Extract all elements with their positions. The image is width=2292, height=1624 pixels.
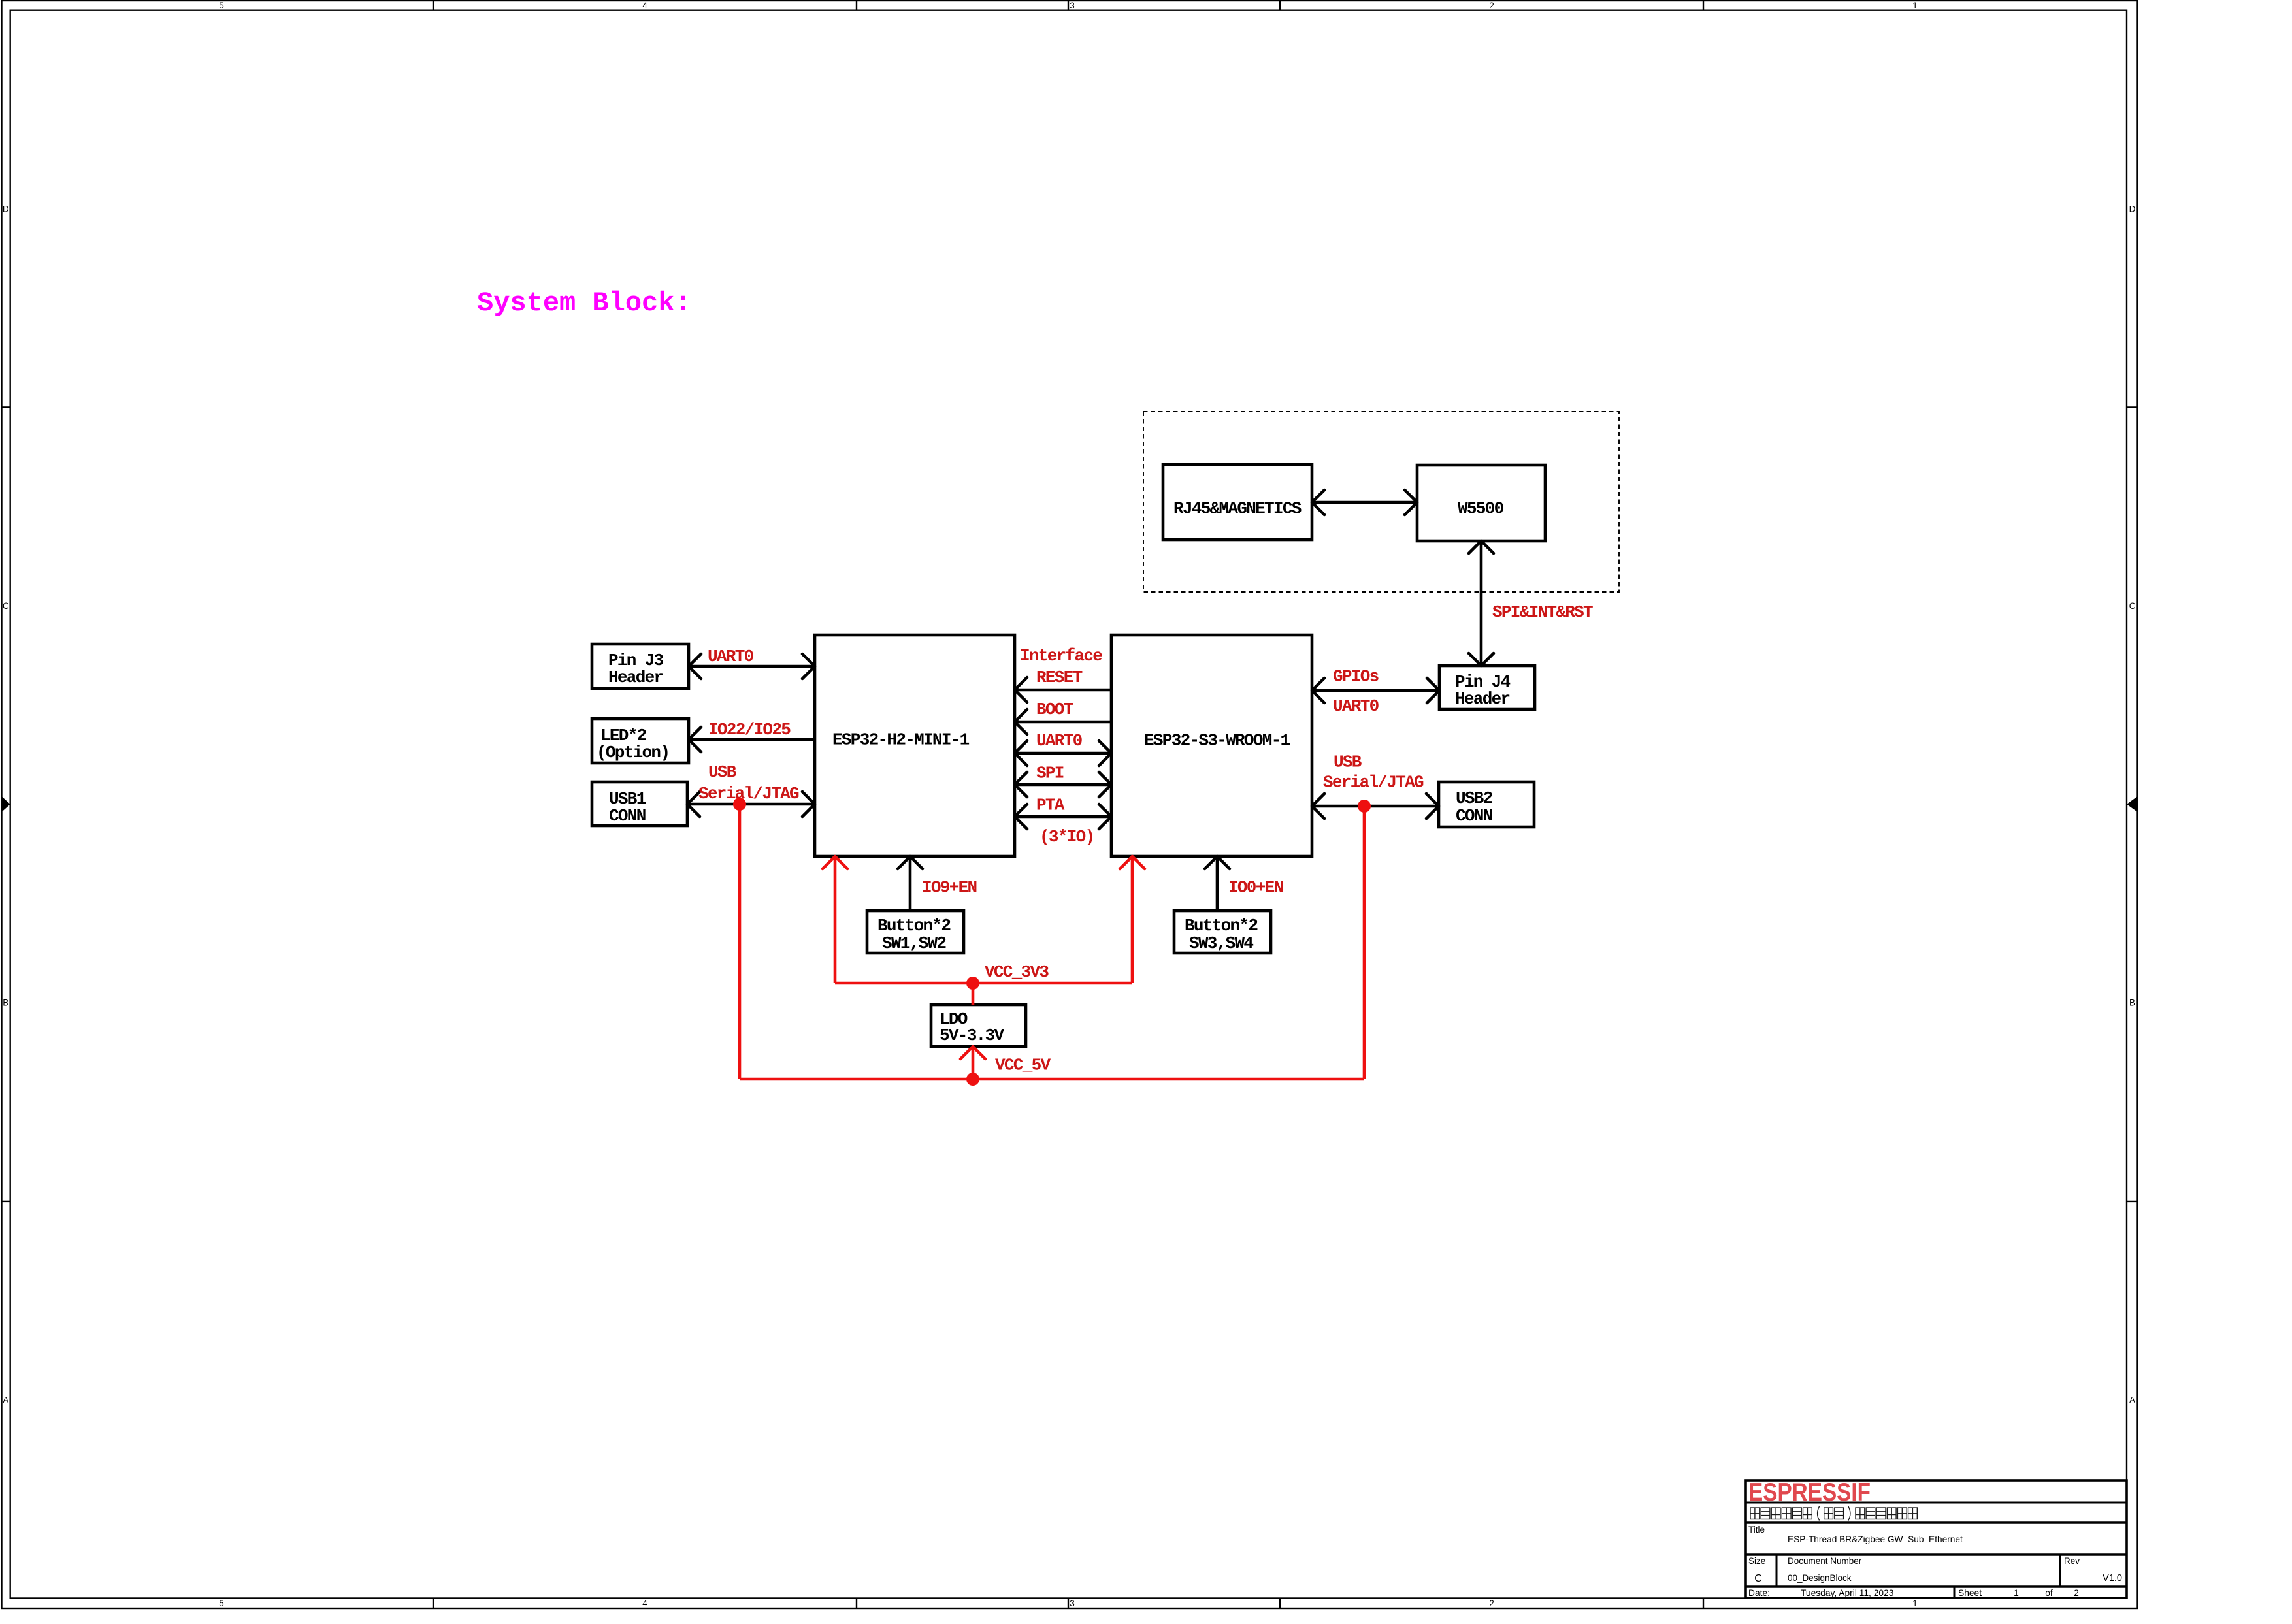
svg-text:Header: Header [1455,689,1510,709]
zone tick bottom [1068,1599,1069,1609]
wire BOOT S3 to H2 [1015,721,1111,724]
svg-text:Date:: Date: [1748,1588,1770,1598]
svg-text:4: 4 [642,1,647,10]
block Button*2 SW1,SW2 [867,911,964,953]
svg-text:PTA: PTA [1036,796,1065,815]
svg-text:IO22/IO25: IO22/IO25 [708,720,791,739]
svg-text:5V-3.3V: 5V-3.3V [940,1026,1004,1045]
wire VCC_5V drop from USB2 line [1363,806,1366,1079]
junction USB1 Serial/JTAG tap [733,798,746,811]
svg-text:ESP32-H2-MINI-1: ESP32-H2-MINI-1 [832,730,970,750]
svg-text:Size: Size [1748,1556,1765,1566]
zone tick top [1068,1,1069,10]
svg-text:VCC_3V3: VCC_3V3 [985,962,1049,982]
zone tick top [856,1,857,10]
svg-text:A: A [3,1395,8,1405]
block LDO 5V-3.3V [931,1005,1026,1047]
svg-text:Sheet: Sheet [1958,1588,1982,1598]
wire UART0 J3 to H2 [689,665,815,668]
svg-text:CONN: CONN [1456,806,1492,826]
svg-text:W5500: W5500 [1458,499,1504,519]
zone tick left [2,1201,10,1202]
wire USB Serial/JTAG S3 to USB2 [1312,805,1439,808]
svg-text:SPI&INT&RST: SPI&INT&RST [1492,602,1593,622]
wire SPI H2-S3 [1015,783,1111,787]
wire VCC_3V3 horizontal [835,982,1132,985]
svg-text:3: 3 [1070,1,1075,10]
block ESP32-H2-MINI-1 U1 [815,635,1015,856]
title block outline [1746,1480,2127,1598]
svg-text:BOOT: BOOT [1036,700,1073,719]
svg-text:Document Number: Document Number [1788,1556,1862,1566]
zone tick right [2127,1201,2138,1202]
svg-text:UART0: UART0 [708,647,754,666]
svg-text:D: D [2129,204,2136,214]
svg-text:3: 3 [1070,1599,1075,1608]
company name (Chinese) [1750,1506,1917,1521]
block RJ45&MAGNETICS [1163,464,1312,540]
svg-text:Interface: Interface [1020,646,1102,666]
wire GPIOs/UART0 S3 to J4 [1312,689,1439,692]
zone tick bottom [433,1599,434,1609]
svg-text:USB: USB [708,762,737,782]
svg-text:5: 5 [219,1599,224,1608]
svg-text:ESP32-S3-WROOM-1: ESP32-S3-WROOM-1 [1144,731,1290,751]
block W5500 [1417,465,1545,541]
svg-text:USB2: USB2 [1456,788,1493,808]
block ESP32-S3-WROOM-1 U2 [1111,635,1312,856]
svg-text:(3*IO): (3*IO) [1040,827,1094,847]
junction VCC_3V3 [966,977,979,990]
svg-text:(Option): (Option) [597,743,669,762]
title block row line 2 [1746,1521,2127,1524]
wire W5500 to Pin J4 (SPI&INT&RST) [1480,541,1483,666]
junction VCC_5V [966,1073,979,1086]
svg-text:1: 1 [1912,1599,1918,1608]
svg-text:UART0: UART0 [1333,696,1379,716]
zone tick top [433,1,434,10]
svg-text:UART0: UART0 [1036,731,1083,751]
wire VCC_3V3 riser into H2 [834,856,837,983]
wire VCC_5V drop from USB1 line [738,804,742,1079]
wire IO0+EN buttons to S3 [1216,856,1219,911]
svg-text:C: C [3,601,9,611]
zone tick top [1703,1,1704,10]
svg-text:Button*2: Button*2 [877,916,951,935]
svg-text:IO9+EN: IO9+EN [922,878,977,898]
block USB2 CONN [1439,782,1534,827]
svg-text:2: 2 [1489,1599,1494,1608]
title block divider Sheet [1954,1587,1956,1598]
wire VCC_3V3 stub to LDO [972,983,975,1005]
block Button*2 SW3,SW4 [1174,911,1271,953]
svg-text:Tuesday, April 11, 2023: Tuesday, April 11, 2023 [1801,1588,1894,1598]
wire USB Serial/JTAG USB1 to H2 [687,803,815,806]
wire RESET S3 to H2 [1015,689,1111,692]
svg-text:D: D [3,204,9,214]
svg-text:Rev: Rev [2064,1556,2080,1566]
svg-text:A: A [2129,1395,2135,1405]
block LED*2 (Option) [592,719,689,763]
svg-text:5: 5 [219,1,224,10]
svg-text:CONN: CONN [609,806,646,826]
block Pin J3 Header [592,644,689,689]
svg-text:SW3,SW4: SW3,SW4 [1189,934,1253,953]
wire IO22/IO25 H2 to LED [689,738,815,741]
svg-text:00_DesignBlock: 00_DesignBlock [1788,1573,1852,1583]
zone tick bottom [1279,1599,1281,1609]
svg-text:B: B [3,998,8,1008]
svg-text:of: of [2045,1588,2053,1598]
svg-text:4: 4 [642,1599,647,1608]
svg-text:C: C [1754,1573,1762,1584]
svg-text:ESPRESSIF: ESPRESSIF [1748,1478,1871,1506]
svg-text:VCC_5V: VCC_5V [995,1056,1051,1075]
svg-text:Button*2: Button*2 [1185,916,1258,935]
svg-text:SPI: SPI [1036,764,1064,783]
zone tick right [2127,406,2138,408]
svg-text:Serial/JTAG: Serial/JTAG [1323,773,1424,792]
block Pin J4 Header [1439,666,1535,709]
title block divider Rev [2059,1555,2061,1587]
svg-text:2: 2 [1489,1,1494,10]
svg-text:Serial/JTAG: Serial/JTAG [698,784,799,804]
svg-text:Title: Title [1748,1525,1765,1535]
zone tick bottom [856,1599,857,1609]
svg-text:RJ45&MAGNETICS: RJ45&MAGNETICS [1173,499,1302,519]
title block divider Size [1776,1555,1778,1587]
svg-text:2: 2 [2074,1588,2079,1598]
svg-text:B: B [2129,998,2135,1008]
dashed group box (ethernet section) [1143,412,1619,592]
svg-text:RESET: RESET [1036,668,1083,687]
centre arrow right edge [2127,796,2138,812]
svg-text:IO0+EN: IO0+EN [1228,878,1283,898]
wire PTA H2-S3 [1015,815,1111,819]
svg-text:V1.0: V1.0 [2103,1573,2122,1583]
svg-text:GPIOs: GPIOs [1333,667,1379,687]
wire VCC_5V stub into LDO [972,1047,975,1079]
wire VCC_3V3 riser into S3 [1131,856,1134,983]
svg-text:Header: Header [608,668,663,687]
svg-text:USB: USB [1334,753,1362,772]
zone tick top [1279,1,1281,10]
wire UART0 H2-S3 [1015,752,1111,755]
wire IO9+EN buttons to H2 [909,856,912,911]
junction USB2 Serial/JTAG tap [1358,800,1371,813]
zone tick left [2,406,10,408]
centre arrow left edge [2,796,10,812]
zone tick bottom [1703,1599,1704,1609]
wire RJ45 to W5500 [1312,501,1417,504]
svg-text:1: 1 [2014,1588,2019,1598]
svg-text:ESP-Thread BR&Zigbee GW_Sub_Et: ESP-Thread BR&Zigbee GW_Sub_Ethernet [1788,1535,1963,1544]
svg-text:1: 1 [1912,1,1918,10]
svg-text:SW1,SW2: SW1,SW2 [882,934,946,953]
svg-text:C: C [2129,601,2136,611]
svg-text:System Block:: System Block: [477,287,691,319]
title block row line 4 [1746,1585,2127,1588]
wire VCC_5V horizontal [740,1078,1364,1081]
block USB1 CONN [592,782,687,826]
title block row line 1 [1746,1502,2127,1504]
title block row line 3 [1746,1553,2127,1556]
